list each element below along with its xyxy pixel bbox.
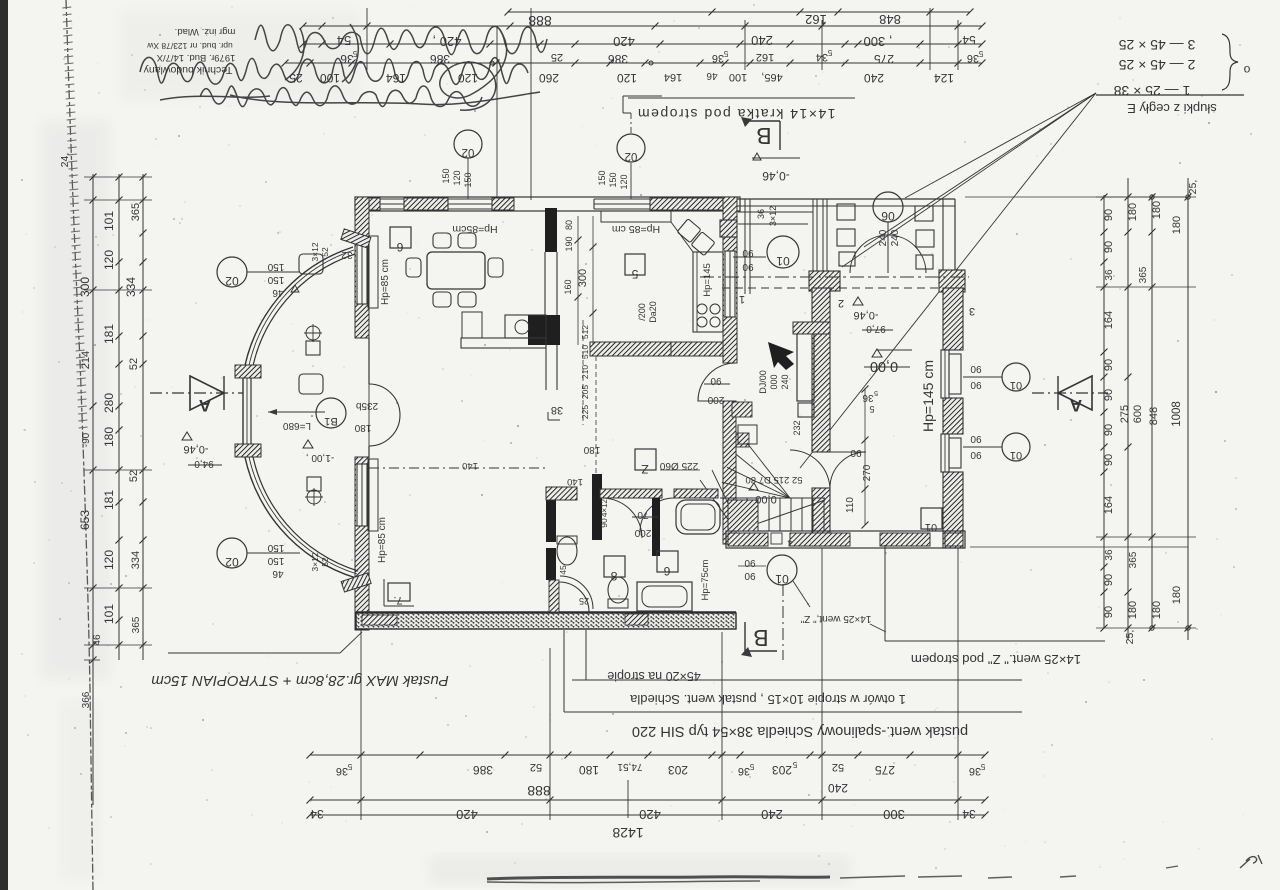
svg-text:80: 80 [564, 220, 574, 230]
svg-text:słupki z cegły E: słupki z cegły E [1127, 101, 1217, 116]
svg-text:240: 240 [780, 374, 790, 389]
chimney flue black [793, 322, 830, 334]
svg-text:52: 52 [530, 761, 542, 773]
leader fan lines [905, 93, 1096, 198]
svg-text:90: 90 [1103, 606, 1115, 618]
svg-text:90: 90 [1103, 574, 1115, 586]
svg-text:164: 164 [1103, 496, 1115, 514]
svg-text:180: 180 [1171, 586, 1183, 604]
svg-text:3×12: 3×12 [768, 206, 778, 226]
svg-text:240: 240 [890, 229, 901, 246]
svg-text:5: 5 [631, 267, 638, 281]
section marker A right [1032, 392, 1108, 394]
svg-text:25,: 25, [1187, 180, 1199, 195]
svg-text:120: 120 [458, 71, 478, 85]
svg-text:02: 02 [625, 150, 638, 162]
svg-text:A: A [199, 396, 211, 415]
svg-text:0,00: 0,00 [870, 358, 898, 374]
svg-text:14×14 kratka pod stropem: 14×14 kratka pod stropem [636, 106, 835, 122]
paper speckle [424, 134, 426, 136]
svg-text:36: 36 [1104, 269, 1115, 281]
svg-text:1428: 1428 [612, 825, 643, 841]
svg-text:38: 38 [551, 404, 563, 416]
svg-text:150: 150 [597, 170, 607, 185]
svg-text:02: 02 [462, 146, 475, 158]
handwriting mark bottom right [1240, 855, 1262, 868]
svg-text:240: 240 [751, 33, 773, 48]
svg-text:DJ/00: DJ/00 [758, 370, 768, 394]
svg-text:14×25 went," Z": 14×25 went," Z" [800, 613, 871, 624]
svg-text:5: 5 [749, 762, 754, 771]
svg-text:150: 150 [608, 172, 618, 187]
svg-text:14×25 went." Z" pod stropem: 14×25 went." Z" pod stropem [911, 652, 1081, 667]
svg-text:240: 240 [761, 807, 783, 822]
svg-text:1 otwór w stropie 10×15 , pus: 1 otwór w stropie 10×15 , pustak went. S… [629, 692, 905, 707]
svg-text:120: 120 [102, 550, 116, 570]
svg-text:mgr inż. Wlad.: mgr inż. Wlad. [175, 26, 236, 37]
svg-text:4: 4 [787, 538, 792, 548]
svg-text:36: 36 [1104, 549, 1115, 561]
bay french doors [368, 338, 370, 384]
svg-text:46: 46 [706, 70, 718, 81]
svg-text:32: 32 [341, 249, 353, 260]
kitchen interior wall [545, 208, 557, 252]
svg-text:52: 52 [832, 761, 844, 773]
svg-text:Hp=85 cm: Hp=85 cm [380, 259, 391, 305]
svg-text:34: 34 [962, 807, 976, 821]
svg-text:46: 46 [92, 634, 103, 646]
porch double door arcs [850, 235, 888, 273]
outer wall left [355, 197, 369, 338]
svg-text:3×12: 3×12 [310, 552, 320, 571]
svg-text:25: 25 [289, 71, 303, 85]
svg-text:140: 140 [462, 460, 478, 471]
svg-text:1008: 1008 [1171, 401, 1183, 427]
svg-text:203: 203 [668, 763, 688, 777]
svg-text:000: 000 [769, 374, 779, 389]
right wing windows [941, 350, 949, 398]
svg-text:90: 90 [850, 447, 862, 458]
svg-text:2 — 45 × 25: 2 — 45 × 25 [1118, 57, 1195, 73]
svg-text:120: 120 [617, 71, 637, 85]
top dimension lines [282, 8, 986, 200]
outer wall top [355, 197, 740, 211]
svg-text:240: 240 [878, 229, 889, 246]
Z stair label [635, 449, 656, 470]
svg-text:2: 2 [838, 297, 844, 309]
svg-text:510: 510 [580, 345, 590, 359]
svg-text:181: 181 [102, 324, 116, 344]
svg-text:B: B [753, 625, 768, 651]
svg-text:200: 200 [634, 527, 651, 538]
svg-text:240: 240 [864, 71, 884, 85]
svg-text:54: 54 [337, 33, 351, 48]
svg-text:334: 334 [130, 551, 142, 569]
svg-text:164: 164 [386, 71, 406, 85]
svg-text:94,0: 94,0 [194, 458, 214, 469]
svg-text:36: 36 [969, 765, 981, 777]
svg-text:5: 5 [723, 49, 728, 58]
svg-text:101: 101 [102, 604, 116, 624]
svg-text:140: 140 [567, 476, 583, 487]
entrance door arc [549, 580, 559, 612]
bay mullion stubs [235, 229, 371, 592]
svg-text:420: 420 [613, 34, 635, 49]
svg-text:, 300: , 300 [864, 34, 893, 49]
svg-text:-0,46: -0,46 [853, 309, 878, 321]
svg-text:180: 180 [102, 427, 116, 447]
svg-text:46: 46 [272, 287, 284, 298]
svg-text:Da20: Da20 [648, 301, 658, 323]
scan fold line [66, 0, 93, 890]
svg-text:120: 120 [102, 250, 116, 270]
svg-text:100: 100 [729, 71, 747, 83]
svg-text:pustak went.-spalinowy Schiedl: pustak went.-spalinowy Schiedla 38×54 ty… [632, 723, 968, 739]
svg-text:90: 90 [1103, 241, 1115, 253]
right wing left wall [812, 288, 830, 452]
svg-text:180: 180 [583, 444, 600, 455]
svg-text:01: 01 [1010, 379, 1022, 391]
svg-text:888: 888 [527, 783, 551, 799]
scan bottom smudge band [487, 877, 830, 879]
svg-text:190: 190 [564, 236, 574, 251]
svg-text:36: 36 [738, 765, 750, 777]
svg-text:275: 275 [1119, 405, 1131, 423]
svg-text:225 Ø60: 225 Ø60 [659, 460, 698, 471]
svg-text:205: 205 [580, 385, 590, 399]
scan edge bar left [0, 0, 8, 890]
svg-text:36: 36 [340, 52, 354, 66]
svg-text:110: 110 [845, 497, 856, 513]
svg-text:120: 120 [452, 170, 462, 185]
outer wall bottom (stippled) [356, 613, 736, 629]
right wing right wall [943, 288, 963, 350]
svg-text:280: 280 [102, 393, 116, 413]
svg-text:275: 275 [874, 52, 894, 66]
porch walls [737, 198, 955, 200]
porch labels [873, 192, 903, 222]
svg-text:512: 512 [580, 325, 590, 339]
svg-text:90: 90 [599, 518, 609, 528]
svg-text:150: 150 [267, 555, 284, 566]
svg-text:164: 164 [1103, 311, 1115, 329]
svg-text:334: 334 [124, 277, 138, 297]
svg-text:150: 150 [267, 542, 284, 553]
svg-text:0,00: 0,00 [755, 493, 776, 505]
svg-text:25,: 25, [1124, 630, 1136, 645]
circle 01 bottom [767, 555, 797, 585]
svg-text:203: 203 [772, 763, 792, 777]
porch pillars [720, 220, 737, 237]
svg-text:275: 275 [875, 763, 895, 777]
svg-text:300: 300 [577, 269, 589, 287]
svg-text:365: 365 [1128, 551, 1139, 568]
lamp symbol [306, 326, 320, 340]
winder steps [720, 443, 790, 498]
svg-text:54: 54 [962, 33, 976, 47]
svg-text:100: 100 [320, 71, 340, 85]
svg-text:46: 46 [272, 568, 284, 579]
svg-text:5: 5 [792, 760, 797, 769]
svg-text:4×12: 4×12 [600, 498, 609, 517]
svg-text:180: 180 [354, 422, 371, 433]
svg-text:Hp=85 cm: Hp=85 cm [377, 517, 388, 563]
svg-text:70: 70 [637, 509, 649, 520]
svg-text:365: 365 [130, 203, 142, 221]
svg-text:02: 02 [225, 555, 239, 569]
garage interior labels [921, 508, 942, 529]
svg-text:420: 420 [639, 807, 661, 822]
svg-text:420: 420 [456, 807, 478, 822]
B1 door circle [316, 398, 346, 428]
svg-text:150: 150 [267, 274, 284, 285]
kitchen-living counter [461, 338, 546, 348]
svg-text:01: 01 [776, 254, 790, 268]
svg-text:5: 5 [874, 389, 878, 396]
svg-text:3 — 45 × 25: 3 — 45 × 25 [1118, 37, 1195, 53]
svg-text:B: B [756, 123, 771, 149]
bottom dimension lines [307, 548, 989, 820]
svg-text:-1,00 ,: -1,00 , [306, 452, 334, 463]
porch bench squares [837, 204, 855, 220]
svg-text:74,51: 74,51 [617, 761, 642, 772]
svg-text:90: 90 [1103, 454, 1115, 466]
right dimension lines [965, 178, 1196, 640]
svg-text:Pustak MAX gr.28,8cm + STYROPI: Pustak MAX gr.28,8cm + STYROPIAN 15cm [151, 672, 448, 689]
kitchen counters right [601, 211, 671, 222]
bath room 6 [657, 551, 678, 572]
svg-text:01: 01 [925, 521, 937, 533]
kitchen labels [625, 254, 645, 275]
svg-text:06: 06 [881, 209, 895, 223]
svg-text:Hp=145: Hp=145 [702, 263, 713, 297]
svg-text:52 215 D7 80: 52 215 D7 80 [745, 474, 802, 485]
svg-text:3: 3 [969, 305, 975, 317]
svg-text:232: 232 [792, 420, 802, 435]
svg-text:36: 36 [862, 392, 874, 403]
svg-text:L=680: L=680 [283, 420, 312, 431]
svg-text:888: 888 [528, 13, 552, 29]
toilet room8 [604, 556, 625, 577]
signature scrawl [140, 24, 547, 110]
svg-text:90: 90 [970, 433, 982, 444]
svg-text:386: 386 [608, 52, 628, 66]
svg-text:90: 90 [742, 261, 754, 272]
hall wall vertical left [546, 500, 556, 542]
hall door arcs [790, 450, 830, 490]
svg-text:90: 90 [1103, 389, 1115, 401]
svg-text:02: 02 [225, 274, 239, 288]
went Z pod stropem note [885, 640, 1105, 642]
svg-text:124: 124 [934, 71, 954, 85]
stair arrow [768, 342, 794, 370]
wc fixtures [557, 537, 577, 565]
svg-text:6: 6 [396, 240, 403, 254]
svg-text:225: 225 [580, 405, 590, 419]
svg-text:162: 162 [805, 12, 827, 27]
svg-text:164: 164 [664, 71, 682, 83]
svg-text:200: 200 [707, 394, 724, 405]
svg-text:260: 260 [539, 71, 559, 85]
svg-text:52: 52 [128, 358, 140, 370]
svg-text:162: 162 [756, 51, 774, 63]
svg-text:420 ,: 420 , [433, 34, 462, 49]
svg-text:90: 90 [970, 449, 982, 460]
svg-text:36: 36 [756, 209, 766, 219]
window label circles top [454, 130, 482, 158]
svg-text:90: 90 [1103, 209, 1115, 221]
svg-text:240: 240 [828, 781, 848, 795]
svg-text:6: 6 [663, 564, 670, 578]
svg-text:36: 36 [712, 52, 724, 64]
room 6 label [390, 227, 411, 248]
svg-text:300: 300 [78, 277, 92, 297]
dashdot vertical below stairs [782, 584, 784, 660]
svg-text:300: 300 [883, 807, 905, 822]
svg-text:90: 90 [744, 570, 756, 581]
room 7 label [388, 583, 410, 601]
svg-text:180: 180 [1151, 201, 1163, 219]
dining table [427, 252, 485, 289]
svg-text:365: 365 [131, 616, 142, 633]
left wall lower [355, 457, 369, 630]
svg-text:34: 34 [310, 807, 324, 821]
svg-text:3×12: 3×12 [310, 242, 320, 261]
svg-text:180: 180 [1127, 601, 1139, 619]
svg-text:848: 848 [879, 12, 901, 27]
svg-text:90: 90 [742, 247, 754, 258]
svg-text:90: 90 [1103, 424, 1115, 436]
svg-text:270: 270 [862, 464, 873, 481]
svg-text:180: 180 [1171, 216, 1183, 234]
svg-text:01: 01 [1010, 449, 1022, 461]
window label circles left [217, 257, 247, 287]
svg-text:848: 848 [1148, 407, 1160, 425]
svg-text:180: 180 [579, 763, 599, 777]
stairs steps [700, 470, 825, 531]
svg-text:210: 210 [580, 365, 590, 379]
svg-text:365: 365 [1138, 266, 1149, 283]
svg-text:Technik budowlany: Technik budowlany [143, 64, 232, 76]
svg-text:150: 150 [463, 172, 473, 187]
svg-text:B1: B1 [324, 415, 337, 427]
svg-text:214: 214 [80, 351, 92, 369]
left dimension lines [84, 174, 152, 806]
svg-text:Hp=145 cm: Hp=145 cm [920, 360, 936, 432]
svg-text:160: 160 [563, 279, 573, 294]
svg-text:34: 34 [816, 51, 828, 63]
svg-text:90: 90 [970, 363, 982, 374]
scan smudges [40, 120, 110, 680]
pillar dim leaders [738, 211, 813, 213]
svg-text:1: 1 [739, 293, 745, 305]
leader lines to note below [563, 630, 565, 712]
svg-text:Hp=85 cm: Hp=85 cm [612, 223, 660, 235]
svg-text:o: o [1243, 63, 1250, 77]
svg-text:120: 120 [619, 174, 629, 189]
window circles right [1002, 363, 1030, 391]
garage door arc [830, 452, 866, 488]
svg-text:5: 5 [980, 762, 985, 771]
svg-text:150: 150 [441, 168, 451, 183]
main right wall [723, 197, 737, 363]
svg-text:235b: 235b [355, 400, 378, 411]
svg-text:1 — 25 × 38: 1 — 25 × 38 [1113, 83, 1190, 99]
svg-text:Hp=75cm: Hp=75cm [700, 559, 711, 600]
svg-text:5: 5 [869, 404, 874, 414]
svg-text:97,0: 97,0 [866, 323, 886, 334]
svg-text:90: 90 [1103, 359, 1115, 371]
right wing bottom wall [726, 531, 965, 548]
door in right wall [698, 363, 736, 401]
svg-text:/200: /200 [637, 303, 647, 321]
svg-text:01: 01 [775, 572, 789, 586]
svg-text:5: 5 [347, 762, 352, 771]
svg-text:45×20 na stropie: 45×20 na stropie [607, 669, 701, 683]
svg-text:Z: Z [641, 462, 648, 476]
svg-text:-0,46: -0,46 [762, 169, 790, 183]
svg-text:600: 600 [1132, 405, 1144, 423]
svg-text:36: 36 [336, 765, 348, 777]
svg-text:5: 5 [827, 48, 832, 57]
svg-text:upr. bud. nr 123/78 Xw: upr. bud. nr 123/78 Xw [146, 41, 232, 51]
section marker A left [150, 392, 243, 394]
svg-text:180: 180 [1151, 601, 1163, 619]
porch floor dash-dot line [700, 276, 969, 278]
svg-text:150: 150 [267, 261, 284, 272]
svg-text:A: A [1070, 396, 1082, 415]
svg-text:52: 52 [320, 247, 330, 257]
svg-text:653: 653 [78, 510, 92, 530]
svg-text:180: 180 [1127, 203, 1139, 221]
svg-text:25: 25 [579, 596, 589, 606]
dash-dot midline [369, 467, 545, 469]
svg-text:-90: -90 [81, 432, 92, 447]
svg-text:-0,46: -0,46 [183, 443, 208, 455]
svg-text:366: 366 [81, 691, 92, 708]
wc wall [592, 474, 602, 540]
svg-text:36: 36 [967, 52, 979, 64]
svg-text:52: 52 [128, 470, 140, 482]
svg-text:5: 5 [352, 49, 357, 58]
svg-text:181: 181 [102, 490, 116, 510]
svg-text:52: 52 [320, 557, 330, 567]
svg-text:386: 386 [430, 52, 450, 66]
bay window arc [243, 247, 356, 578]
svg-text:465,: 465, [761, 71, 782, 83]
svg-text:25: 25 [551, 51, 563, 63]
svg-text:386: 386 [473, 763, 493, 777]
svg-text:5: 5 [978, 49, 983, 58]
svg-text:24,: 24, [59, 153, 71, 168]
svg-text:90: 90 [970, 379, 982, 390]
svg-text:1979r. Bud. 14/7/X: 1979r. Bud. 14/7/X [156, 52, 235, 63]
svg-text:Hp=85cm: Hp=85cm [452, 223, 497, 235]
svg-text:45: 45 [558, 565, 568, 575]
svg-text:7.: 7. [393, 594, 402, 606]
svg-text:101: 101 [102, 211, 116, 231]
